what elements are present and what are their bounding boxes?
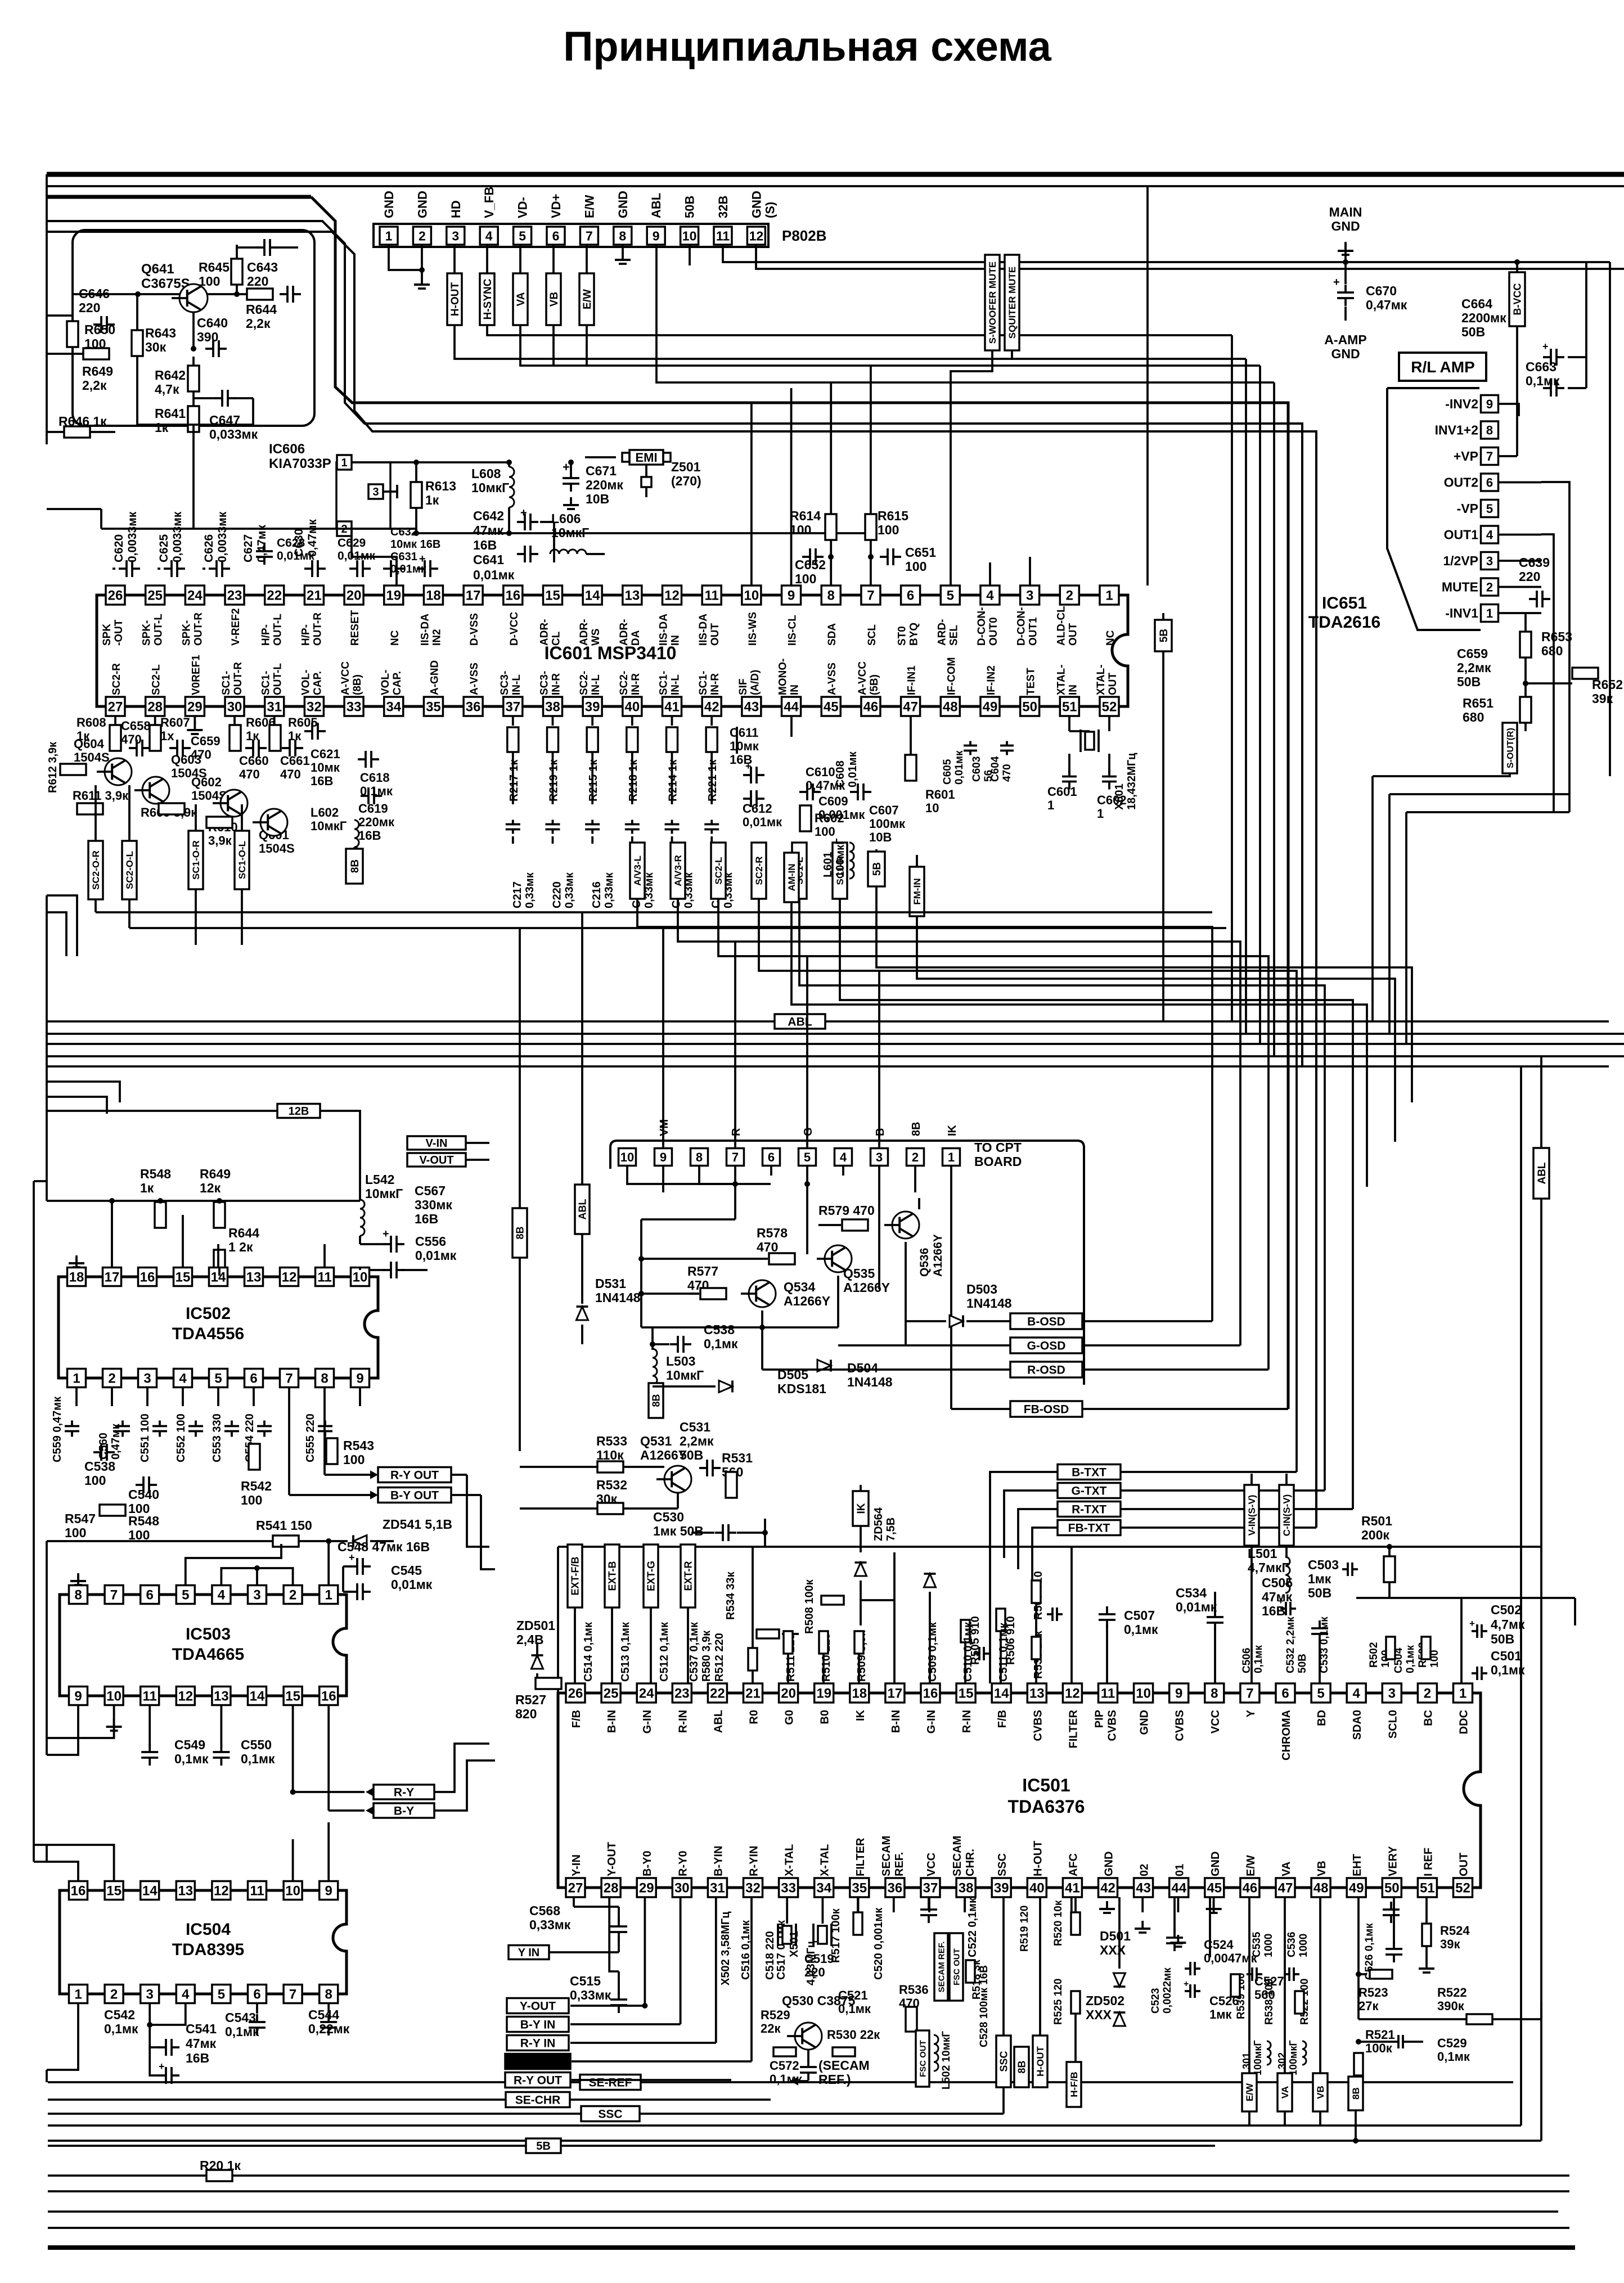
svg-text:E/W: E/W — [1245, 1855, 1257, 1876]
IC503 pin 5 — [176, 1586, 195, 1604]
connector CPT pin 3 — [871, 1149, 888, 1166]
svg-text:R524: R524 — [1440, 1924, 1470, 1938]
IC502 pin 6 — [245, 1369, 263, 1388]
IC504 pin 7 — [284, 1985, 302, 2003]
net label box H-SYNC — [486, 245, 488, 273]
svg-text:6: 6 — [250, 1371, 257, 1386]
svg-text:390: 390 — [197, 330, 218, 344]
IC U503 TDA4665 outline — [60, 1595, 347, 1696]
wire IK net — [861, 1599, 894, 1601]
svg-text:24: 24 — [187, 588, 203, 604]
wire Q641 block bottom — [137, 424, 253, 426]
svg-text:A1266Y: A1266Y — [784, 1294, 830, 1308]
svg-text:G-TXT: G-TXT — [1072, 1485, 1107, 1498]
svg-text:33: 33 — [781, 1881, 796, 1896]
wire OSD to right — [1082, 1320, 1212, 1322]
svg-text:C-IN(S-V): C-IN(S-V) — [1281, 1494, 1292, 1537]
svg-text:R649: R649 — [82, 364, 113, 379]
svg-text:VM: VM — [658, 1119, 671, 1136]
svg-text:36: 36 — [466, 700, 481, 715]
wire IC606 pin2 down — [352, 529, 397, 586]
svg-text:50В: 50В — [1461, 325, 1485, 339]
svg-text:2,2мк: 2,2мк — [1457, 660, 1491, 675]
IC501 pin 7 — [1240, 1683, 1259, 1703]
svg-text:R-Y: R-Y — [394, 1786, 414, 1799]
net box B-Y OUT inverted — [505, 2054, 570, 2069]
net box 8B mid — [512, 1208, 527, 1258]
IC501 pin 13 — [1027, 1683, 1046, 1703]
net box FB-TXT — [1058, 1520, 1121, 1535]
svg-text:0,1мк: 0,1мк — [104, 2021, 138, 2036]
svg-text:B-Y OUT: B-Y OUT — [390, 1489, 439, 1502]
svg-text:1к: 1к — [155, 420, 169, 435]
wire ABL pin9 down — [656, 245, 1274, 382]
svg-text:1: 1 — [1105, 588, 1113, 604]
svg-text:28: 28 — [147, 700, 163, 715]
svg-text:C537 0,1мк: C537 0,1мк — [688, 1622, 700, 1682]
IC504 pin 9 — [320, 1881, 338, 1900]
svg-text:8B: 8B — [349, 859, 361, 873]
svg-text:3: 3 — [452, 228, 459, 243]
svg-text:H-F/B: H-F/B — [1069, 2072, 1079, 2097]
svg-text:43: 43 — [1136, 1881, 1151, 1896]
IC501 pin 25 — [601, 1683, 620, 1703]
svg-text:C501: C501 — [1491, 1649, 1522, 1663]
svg-text:R578: R578 — [757, 1226, 788, 1240]
svg-text:0,01мк: 0,01мк — [391, 1577, 433, 1592]
svg-text:1: 1 — [1097, 807, 1104, 821]
IC601 pin 38 — [543, 697, 562, 716]
svg-text:50B: 50B — [683, 196, 697, 218]
svg-text:23: 23 — [674, 1686, 690, 1701]
svg-text:1N4148: 1N4148 — [595, 1290, 641, 1305]
svg-text:C552 100: C552 100 — [175, 1413, 187, 1462]
svg-text:EXT-R: EXT-R — [682, 1561, 694, 1591]
svg-text:R608: R608 — [77, 715, 106, 730]
svg-text:SC2-L: SC2-L — [151, 664, 163, 695]
svg-text:10В: 10В — [869, 830, 892, 844]
svg-text:1 2к: 1 2к — [228, 1240, 253, 1254]
svg-text:6: 6 — [146, 1588, 154, 1603]
svg-text:C618: C618 — [360, 771, 390, 785]
connector CPT pin 10 — [619, 1149, 636, 1166]
svg-text:2: 2 — [108, 1371, 115, 1386]
resistor R653 680 — [1520, 632, 1531, 658]
svg-text:VB: VB — [1316, 1861, 1328, 1876]
net box SC2-O-R — [95, 785, 97, 841]
svg-text:9: 9 — [660, 1150, 667, 1164]
IC601 pin 23 — [225, 586, 244, 605]
svg-text:B-IN: B-IN — [606, 1710, 618, 1733]
net box S-OUT(R) — [1502, 723, 1517, 773]
svg-text:R651: R651 — [1463, 696, 1493, 710]
wire bottom line SSC — [48, 2113, 581, 2115]
svg-text:B-YIN: B-YIN — [712, 1846, 725, 1876]
svg-text:680: 680 — [1463, 710, 1484, 724]
capacitor C215 — [665, 823, 680, 826]
IC504 pin 16 — [69, 1881, 88, 1900]
IC502 pin 5 — [209, 1369, 228, 1388]
svg-text:8B: 8B — [514, 1226, 525, 1239]
net box 12B — [47, 1110, 278, 1112]
svg-text:2: 2 — [912, 1150, 919, 1164]
svg-text:C611: C611 — [730, 726, 758, 740]
svg-text:Y-OUT: Y-OUT — [520, 2000, 556, 2013]
svg-text:SDA: SDA — [826, 623, 838, 646]
svg-text:R653: R653 — [1541, 629, 1572, 644]
svg-text:C518 220: C518 220 — [764, 1931, 776, 1980]
wire bottom line 6 — [48, 2124, 1521, 2127]
IC601 pin 39 — [583, 697, 602, 716]
svg-text:SC2-O-R: SC2-O-R — [91, 850, 101, 890]
wire IC503 pin9-11 stubs — [77, 1705, 79, 1721]
svg-text:15: 15 — [545, 588, 560, 604]
svg-text:32: 32 — [745, 1881, 761, 1896]
svg-text:24: 24 — [639, 1686, 654, 1701]
svg-text:R: R — [730, 1128, 743, 1136]
capacitor C217 — [506, 823, 520, 826]
IC501 pin 28 — [601, 1878, 620, 1897]
svg-text:VOL-CAP.: VOL-CAP. — [300, 670, 323, 695]
wire bottom line SE-REF — [48, 2081, 579, 2083]
svg-text:C511 0,1мк: C511 0,1мк — [997, 1622, 1010, 1682]
svg-text:47мк: 47мк — [473, 523, 504, 538]
IC601 pin 4 — [980, 586, 1000, 605]
svg-text:V_FB: V_FB — [482, 187, 496, 218]
svg-text:IC503: IC503 — [186, 1625, 231, 1643]
svg-text:11: 11 — [1101, 1686, 1115, 1701]
svg-text:R650: R650 — [84, 322, 115, 337]
svg-text:23: 23 — [227, 588, 242, 604]
wire R541 line — [47, 1540, 348, 1542]
svg-text:35: 35 — [852, 1881, 867, 1896]
wire middle bus 1 with ABL — [47, 1020, 775, 1023]
IC504 pin 10 — [284, 1881, 302, 1900]
svg-text:B-TXT: B-TXT — [1072, 1466, 1106, 1479]
svg-text:C513 0,1мк: C513 0,1мк — [619, 1622, 632, 1682]
svg-text:C510 0,1мк: C510 0,1мк — [962, 1622, 974, 1682]
net box S-WOOFER MUTE — [985, 255, 1000, 350]
resistor R217 — [512, 716, 514, 726]
svg-text:GND: GND — [1209, 1852, 1222, 1876]
IC502 pin 17 — [103, 1268, 122, 1286]
svg-text:R532: R532 — [596, 1478, 627, 1492]
svg-text:13: 13 — [246, 1270, 262, 1285]
svg-text:C610: C610 — [806, 765, 835, 779]
svg-text:-VP: -VP — [1457, 501, 1478, 516]
IC501 pin 17 — [885, 1683, 905, 1703]
connector CPT pin 7 — [727, 1149, 744, 1166]
svg-text:Y-OUT: Y-OUT — [606, 1842, 618, 1876]
svg-text:IC606: IC606 — [269, 442, 305, 457]
svg-text:0,01мк: 0,01мк — [277, 550, 314, 562]
svg-text:H-OUT: H-OUT — [1032, 1841, 1044, 1876]
svg-text:EHT: EHT — [1351, 1854, 1364, 1876]
svg-text:C642: C642 — [473, 508, 504, 523]
IC503 pin 10 — [105, 1687, 123, 1705]
svg-text:29: 29 — [639, 1881, 654, 1896]
IC502 pin 12 — [280, 1268, 299, 1286]
svg-text:1мк: 1мк — [1308, 1571, 1331, 1586]
svg-text:47мк: 47мк — [1262, 1589, 1293, 1604]
net box G-TXT — [1058, 1483, 1121, 1498]
svg-text:1мк 50В: 1мк 50В — [653, 1524, 704, 1538]
connector P802B pin 6 — [547, 227, 565, 245]
svg-text:SSC: SSC — [996, 1853, 1009, 1876]
wire routing box feeds — [570, 2005, 641, 2007]
svg-text:L503: L503 — [666, 1354, 695, 1368]
IC501 pin 45 — [1205, 1878, 1224, 1897]
svg-text:D-VCC: D-VCC — [509, 612, 520, 646]
svg-text:+: + — [1278, 1596, 1284, 1606]
svg-text:10: 10 — [1136, 1686, 1151, 1701]
svg-text:12: 12 — [1065, 1686, 1080, 1701]
svg-text:40: 40 — [1029, 1881, 1045, 1896]
IC501 pin 5 — [1311, 1683, 1330, 1703]
svg-text:R218 1к: R218 1к — [627, 759, 640, 801]
IC651 pin 7 — [1481, 448, 1499, 465]
wire IC502 pin stubs down — [75, 1388, 78, 1406]
IC501 pin 18 — [850, 1683, 869, 1703]
svg-text:8B: 8B — [910, 1122, 923, 1136]
wire IC502 pin18 gnd — [75, 1259, 78, 1267]
wire speaker lines — [1373, 773, 1510, 776]
svg-text:V-IN(S-V): V-IN(S-V) — [1247, 1495, 1257, 1536]
svg-text:R-YIN: R-YIN — [748, 1846, 761, 1876]
wire top bus thin — [47, 185, 1624, 187]
svg-text:(SECAM: (SECAM — [818, 2058, 870, 2073]
svg-text:IIS-WS: IIS-WS — [747, 612, 759, 646]
svg-text:AM-IN: AM-IN — [786, 863, 797, 891]
svg-text:-INV1: -INV1 — [1445, 606, 1478, 620]
wire bottom line SE-CHR — [48, 2099, 506, 2101]
IC601 pin 45 — [821, 697, 840, 716]
wire IC503 pin4-2 top link — [221, 1568, 293, 1585]
net box A/V3-L — [630, 843, 645, 899]
svg-text:B Y OUT: B Y OUT — [514, 2056, 562, 2069]
svg-text:R577: R577 — [687, 1264, 718, 1278]
capacitor C219 — [625, 823, 640, 826]
svg-text:D501: D501 — [1100, 1929, 1131, 1943]
IC601 pin 32 — [304, 697, 323, 716]
IC501 pin 26 — [566, 1683, 585, 1703]
net box ABL mid — [575, 1185, 590, 1234]
svg-text:5: 5 — [214, 1371, 222, 1386]
svg-text:ABL: ABL — [1536, 1162, 1548, 1184]
svg-text:51: 51 — [1062, 700, 1077, 715]
svg-text:32: 32 — [307, 700, 322, 715]
svg-text:0,47мк: 0,47мк — [1366, 298, 1407, 312]
IC501 pin 8 — [1205, 1683, 1224, 1703]
IC501 pin 47 — [1276, 1878, 1295, 1897]
capacitor C541 47мк 16В — [165, 2039, 167, 2056]
svg-text:C538: C538 — [704, 1322, 735, 1337]
svg-text:R643: R643 — [145, 326, 176, 340]
svg-text:6: 6 — [768, 1150, 775, 1164]
svg-text:R612 3,9к: R612 3,9к — [47, 741, 59, 793]
svg-text:0,1мк: 0,1мк — [1526, 373, 1560, 388]
wire D-CON wires — [989, 562, 991, 586]
IC503 pin 13 — [212, 1687, 231, 1705]
connector P802B pin 5 — [514, 227, 532, 245]
svg-text:CVBS: CVBS — [1174, 1710, 1186, 1741]
net box 8B below L602 — [346, 849, 363, 884]
IC501 pin 32 — [744, 1878, 763, 1897]
net box 8B vertical — [1014, 2047, 1029, 2087]
wire mute boxes down — [951, 350, 992, 586]
svg-text:41: 41 — [1065, 1881, 1080, 1896]
svg-text:VD-: VD- — [516, 197, 530, 218]
svg-text:2: 2 — [1486, 580, 1493, 594]
IC601 pin 14 — [583, 586, 602, 605]
svg-text:3,9к: 3,9к — [208, 834, 232, 848]
svg-text:31: 31 — [710, 1881, 725, 1896]
svg-text:100: 100 — [84, 1473, 106, 1488]
svg-text:16: 16 — [321, 1689, 336, 1704]
svg-text:R525 120: R525 120 — [1052, 1979, 1064, 2025]
svg-text:VCC: VCC — [1209, 1710, 1222, 1733]
wire IC503 left links — [47, 1721, 114, 1738]
svg-text:15: 15 — [285, 1689, 300, 1704]
IC601 pin 44 — [782, 697, 801, 716]
IC502 pin 15 — [174, 1268, 192, 1286]
svg-text:19: 19 — [386, 588, 401, 604]
IC601 pin 47 — [901, 697, 920, 716]
svg-text:G: G — [802, 1127, 815, 1136]
svg-text:1x: 1x — [160, 729, 174, 743]
IC501 pin 24 — [637, 1683, 656, 1703]
svg-text:1: 1 — [948, 1150, 955, 1164]
svg-text:R531: R531 — [722, 1451, 753, 1465]
svg-text:(270): (270) — [671, 474, 701, 488]
svg-text:SC2-R: SC2-R — [754, 856, 764, 885]
svg-text:A-VSS: A-VSS — [469, 663, 480, 695]
IC501 pin 36 — [885, 1878, 905, 1897]
svg-text:4,7мк: 4,7мк — [1491, 1617, 1525, 1632]
svg-text:16: 16 — [71, 1884, 86, 1899]
IC601 pin 17 — [464, 586, 483, 605]
IC501 pin 41 — [1063, 1878, 1082, 1897]
wire P802B pin10 stub — [689, 245, 691, 265]
IC601 pin 28 — [146, 697, 165, 716]
svg-text:TEST: TEST — [1025, 668, 1037, 695]
wire bus drop 2 — [1245, 359, 1247, 1034]
svg-text:BC: BC — [1422, 1710, 1434, 1726]
svg-text:49: 49 — [983, 700, 998, 715]
svg-text:VB: VB — [1315, 2086, 1326, 2099]
wire R613 node to right — [416, 532, 878, 534]
svg-text:R501: R501 — [1361, 1514, 1392, 1528]
svg-text:C512 0,1мк: C512 0,1мк — [658, 1622, 671, 1682]
svg-text:33: 33 — [347, 700, 362, 715]
wire Y-OUT pin28 — [609, 1897, 619, 1971]
svg-text:50: 50 — [1384, 1881, 1400, 1896]
svg-text:R529: R529 — [761, 2008, 790, 2022]
net box B-OSD — [1010, 1313, 1082, 1329]
wire IC503 pin1 up — [327, 1541, 330, 1585]
net box H-F/B vertical — [1067, 2062, 1081, 2107]
svg-text:10мкГ: 10мкГ — [471, 480, 509, 495]
svg-text:6: 6 — [253, 1987, 260, 2002]
wire IC504 left feeds — [47, 1845, 114, 1881]
IC501 pin 50 — [1382, 1878, 1401, 1897]
IC502 pin 4 — [174, 1369, 192, 1388]
svg-text:OUT1: OUT1 — [1444, 528, 1479, 542]
svg-text:45: 45 — [824, 700, 839, 715]
svg-text:HD: HD — [449, 200, 463, 218]
svg-text:22: 22 — [267, 588, 282, 604]
svg-text:17: 17 — [466, 588, 481, 604]
svg-text:R607: R607 — [160, 715, 190, 730]
svg-text:IF-IN2: IF-IN2 — [986, 665, 997, 695]
wire B-YIN pin31 — [715, 1897, 717, 2043]
IC501 pin 34 — [815, 1878, 834, 1897]
svg-text:B-OSD: B-OSD — [1027, 1316, 1065, 1329]
resistor R602 100 — [800, 805, 811, 831]
svg-text:CHROMA: CHROMA — [1280, 1710, 1293, 1760]
wire RY BY right — [434, 1744, 489, 1792]
wire middle bus 3 — [47, 1043, 1624, 1045]
svg-text:46: 46 — [1243, 1881, 1258, 1896]
svg-text:F/B: F/B — [570, 1710, 583, 1728]
net box B-Y — [329, 1809, 365, 1812]
net box V-IN — [407, 1136, 466, 1150]
IC601 pin 12 — [663, 586, 682, 605]
net box C-IN(S-V) — [1279, 1485, 1294, 1546]
svg-text:B-Y: B-Y — [394, 1805, 414, 1818]
svg-text:R-Y IN: R-Y IN — [520, 2037, 556, 2050]
svg-text:1к: 1к — [425, 493, 439, 507]
svg-text:16: 16 — [140, 1270, 155, 1285]
capacitor C670 0,47мк — [1344, 262, 1347, 284]
block label R/L AMP — [1399, 353, 1486, 381]
svg-text:A1266Y: A1266Y — [843, 1280, 890, 1295]
connector P802B pin 7 — [580, 227, 598, 245]
IC651 pin 9 — [1481, 395, 1499, 413]
capacitor C216 — [585, 823, 600, 826]
resistor R650 — [67, 321, 78, 347]
svg-text:R527: R527 — [515, 1692, 546, 1707]
wire caps row — [101, 528, 416, 530]
wire CPT feed VM — [662, 927, 664, 1148]
svg-text:GND: GND — [1331, 219, 1360, 233]
IC501 pin 42 — [1099, 1878, 1118, 1897]
wire IC502 pin10 up — [359, 1267, 361, 1270]
svg-text:C509 0,1мк: C509 0,1мк — [926, 1622, 939, 1682]
svg-text:49: 49 — [1349, 1881, 1364, 1896]
svg-text:2200мк: 2200мк — [1461, 310, 1506, 325]
svg-text:R642: R642 — [155, 368, 186, 382]
diode ZD541 5,1В — [353, 1535, 367, 1547]
wire staircase 4 — [759, 899, 1297, 1472]
connector CPT pin 2 — [907, 1149, 924, 1166]
svg-text:0,01мк: 0,01мк — [415, 1248, 457, 1263]
IC601 pin 5 — [941, 586, 960, 605]
svg-text:SC2-IN-L: SC2-IN-L — [578, 671, 602, 695]
net box E/W bottom — [1242, 2073, 1257, 2111]
svg-text:IC502: IC502 — [186, 1304, 231, 1323]
wire IC504 pin10 up — [292, 1839, 294, 1881]
svg-text:C602: C602 — [1097, 793, 1127, 807]
svg-text:C664: C664 — [1461, 296, 1492, 311]
IC501 pin 27 — [566, 1878, 585, 1897]
net box IK — [853, 1491, 869, 1526]
svg-text:47: 47 — [1278, 1881, 1293, 1896]
svg-text:38: 38 — [959, 1881, 974, 1896]
wire middle bus 5 — [47, 1065, 1609, 1068]
IC601 pin 10 — [742, 586, 761, 605]
svg-text:R221 1к: R221 1к — [707, 759, 719, 801]
